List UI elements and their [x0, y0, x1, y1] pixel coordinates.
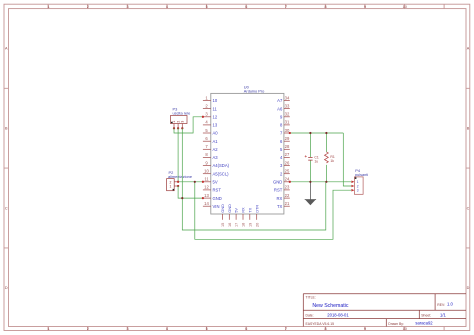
svg-text:saraca92: saraca92 — [415, 321, 433, 326]
wire P2.1 to U0 pin13 GND — [178, 186, 203, 198]
svg-text:TX: TX — [277, 204, 283, 209]
wire top rail pin30 — [290, 132, 344, 134]
connector P4 — [351, 168, 368, 194]
svg-text:EASYEDA V5.6.15: EASYEDA V5.6.15 — [306, 322, 335, 326]
wire C1 top — [309, 133, 311, 157]
svg-text:4: 4 — [166, 327, 168, 331]
svg-text:12: 12 — [213, 115, 218, 120]
svg-text:A5(SCL): A5(SCL) — [213, 171, 230, 176]
svg-text:7: 7 — [285, 327, 287, 331]
wire R1 top — [325, 133, 327, 152]
svg-text:RX: RX — [241, 207, 246, 213]
svg-text:28: 28 — [285, 144, 290, 149]
svg-text:34: 34 — [285, 95, 290, 100]
svg-text:14: 14 — [204, 201, 209, 206]
junction dots — [181, 132, 327, 199]
svg-text:7: 7 — [285, 5, 287, 9]
ground symbol — [305, 182, 316, 205]
title block — [303, 294, 466, 327]
svg-text:RST: RST — [274, 188, 283, 193]
svg-text:4: 4 — [166, 5, 168, 9]
svg-text:20: 20 — [255, 223, 259, 227]
svg-text:23: 23 — [285, 185, 290, 190]
svg-text:2: 2 — [87, 5, 89, 9]
wire C1 bottom — [309, 160, 311, 181]
U0 bottom pin numbers 15-20 — [221, 223, 259, 227]
svg-text:11: 11 — [204, 177, 209, 182]
U0 bottom pin stubs — [222, 214, 256, 220]
svg-text:6: 6 — [245, 327, 247, 331]
svg-text:D: D — [5, 286, 8, 290]
svg-text:17: 17 — [235, 223, 239, 227]
svg-text:A7: A7 — [277, 98, 283, 103]
svg-text:26: 26 — [285, 160, 290, 165]
svg-text:1: 1 — [48, 327, 50, 331]
U0 left pin stubs — [203, 101, 211, 207]
svg-text:8: 8 — [324, 327, 326, 331]
svg-text:1: 1 — [48, 5, 50, 9]
svg-text:GND: GND — [227, 204, 232, 213]
wire P4.2 to top rail — [343, 133, 351, 186]
wire bottom rail pin24 GND — [290, 181, 351, 183]
wire P3.1 to U0 pin3 — [174, 117, 203, 133]
svg-text:TITLE:: TITLE: — [306, 295, 316, 299]
svg-text:C: C — [467, 207, 470, 211]
IC U0 body — [211, 84, 284, 214]
svg-text:29: 29 — [285, 136, 290, 141]
svg-text:pulsanti: pulsanti — [355, 173, 368, 177]
svg-text:3: 3 — [127, 327, 129, 331]
svg-text:1/1: 1/1 — [440, 313, 446, 318]
svg-text:1.0: 1.0 — [447, 302, 453, 307]
svg-text:B: B — [467, 127, 470, 131]
svg-text:10: 10 — [403, 5, 407, 9]
connector P2 — [167, 170, 192, 191]
svg-text:D: D — [467, 286, 470, 290]
svg-text:2: 2 — [87, 327, 89, 331]
svg-text:9: 9 — [364, 5, 366, 9]
svg-text:DTR: DTR — [254, 205, 259, 213]
svg-text:33: 33 — [285, 103, 290, 108]
U0 bottom pin names — [220, 204, 259, 213]
svg-text:12: 12 — [204, 185, 209, 190]
svg-text:32: 32 — [285, 112, 290, 117]
svg-text:Sheet:: Sheet: — [421, 314, 431, 318]
svg-text:REV:: REV: — [437, 303, 445, 307]
svg-text:alimentazione: alimentazione — [168, 174, 192, 179]
svg-text:RST: RST — [213, 188, 222, 193]
svg-text:VIN: VIN — [213, 204, 220, 209]
svg-text:C: C — [5, 207, 8, 211]
wires green — [174, 117, 351, 240]
svg-text:27: 27 — [285, 152, 290, 157]
wire 5V row P2.2 to U0 pin11 — [178, 181, 203, 183]
svg-text:11: 11 — [213, 106, 218, 111]
svg-text:GND: GND — [220, 204, 225, 213]
svg-text:10: 10 — [213, 98, 218, 103]
svg-text:Arduino Pro: Arduino Pro — [244, 88, 265, 93]
svg-text:16: 16 — [228, 223, 232, 227]
svg-text:3: 3 — [357, 189, 359, 193]
svg-text:22: 22 — [285, 193, 290, 198]
svg-text:A6: A6 — [277, 106, 283, 111]
svg-text:13: 13 — [204, 193, 209, 198]
pin connection dots — [177, 116, 291, 200]
svg-text:GND: GND — [213, 196, 222, 201]
svg-text:A4(SDA): A4(SDA) — [213, 163, 230, 168]
connector P3 — [171, 106, 191, 129]
resistor R1 — [325, 152, 335, 163]
P3 pin end dots — [173, 127, 175, 129]
svg-text:RX: RX — [276, 196, 282, 201]
svg-text:10: 10 — [204, 169, 209, 174]
svg-text:5: 5 — [206, 327, 208, 331]
svg-text:1u: 1u — [314, 160, 318, 164]
svg-text:10: 10 — [403, 327, 407, 331]
wire GND link bottom — [182, 182, 325, 230]
svg-text:GND: GND — [273, 180, 282, 185]
wire P3.2 to 5V row — [177, 128, 179, 182]
U0 right pin stubs — [284, 101, 290, 207]
U0 left pin numbers 1-14 — [204, 95, 209, 206]
svg-text:3: 3 — [127, 5, 129, 9]
P4 pin arrows — [351, 181, 354, 192]
wire 5V drop to P4.3 — [195, 182, 351, 240]
svg-text:5V: 5V — [234, 208, 239, 213]
svg-text:5V: 5V — [213, 180, 218, 185]
svg-text:A2: A2 — [213, 147, 219, 152]
svg-text:A1: A1 — [213, 139, 219, 144]
U0 left pin names — [213, 98, 230, 209]
svg-text:9: 9 — [364, 327, 366, 331]
svg-text:25: 25 — [285, 169, 290, 174]
svg-text:31: 31 — [285, 120, 290, 125]
svg-text:TX: TX — [247, 207, 252, 212]
svg-text:A: A — [467, 47, 470, 51]
capacitor C1 — [305, 155, 319, 163]
svg-text:New Schematic: New Schematic — [312, 303, 348, 309]
svg-text:A3: A3 — [213, 155, 219, 160]
svg-text:Date:: Date: — [306, 314, 314, 318]
svg-text:2018-08-01: 2018-08-01 — [327, 313, 349, 318]
svg-text:B: B — [5, 127, 8, 131]
wire R1 bottom — [325, 165, 327, 182]
svg-text:18: 18 — [242, 223, 246, 227]
svg-text:3: 3 — [181, 121, 185, 123]
svg-text:5: 5 — [206, 5, 208, 9]
svg-text:uscita rele: uscita rele — [173, 110, 191, 115]
svg-text:1k: 1k — [330, 159, 334, 163]
svg-text:A: A — [5, 47, 8, 51]
svg-text:6: 6 — [245, 5, 247, 9]
svg-text:Drawn By:: Drawn By: — [388, 322, 404, 326]
svg-text:15: 15 — [221, 223, 225, 227]
svg-text:A0: A0 — [213, 131, 219, 136]
wire P3.3 down — [181, 128, 183, 198]
U0 right pin names — [273, 98, 283, 209]
U0 right pin numbers 34-21 — [285, 95, 290, 206]
svg-text:21: 21 — [285, 201, 290, 206]
svg-text:8: 8 — [324, 5, 326, 9]
svg-text:19: 19 — [248, 223, 252, 227]
svg-text:1: 1 — [169, 185, 171, 189]
svg-text:13: 13 — [213, 123, 218, 128]
